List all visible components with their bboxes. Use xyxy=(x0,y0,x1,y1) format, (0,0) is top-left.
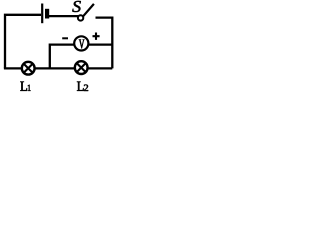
lamp L1 X xyxy=(24,64,32,72)
label L1 xyxy=(20,82,27,91)
voltmeter plus terminal mark xyxy=(93,33,100,40)
wire: voltmeter branch right to right vertical xyxy=(88,43,112,45)
voltmeter minus terminal mark xyxy=(62,37,68,39)
wire: switch to top-right corner and right vertical xyxy=(96,18,113,69)
voltmeter V1 circle xyxy=(74,36,88,50)
wire: battery to switch xyxy=(49,15,79,17)
wire: bottom horizontal xyxy=(4,67,112,69)
lamp L1 circle xyxy=(22,62,35,75)
label S (switch designator) xyxy=(72,1,81,12)
wire: voltmeter branch left + drop to node between L1 and L2 xyxy=(50,45,75,69)
label L2 xyxy=(77,82,84,91)
wire: left vertical + top-left horizontal to battery xyxy=(5,15,41,69)
lamp L2 circle xyxy=(75,61,88,74)
battery B1 long plate (+) xyxy=(41,4,43,24)
voltmeter V1 letter V xyxy=(79,40,85,49)
switch S1 pivot circle xyxy=(78,15,83,20)
lamp L2 X xyxy=(77,64,85,72)
battery B1 short thick plate (-) xyxy=(45,9,49,19)
switch S1 blade xyxy=(83,4,94,16)
